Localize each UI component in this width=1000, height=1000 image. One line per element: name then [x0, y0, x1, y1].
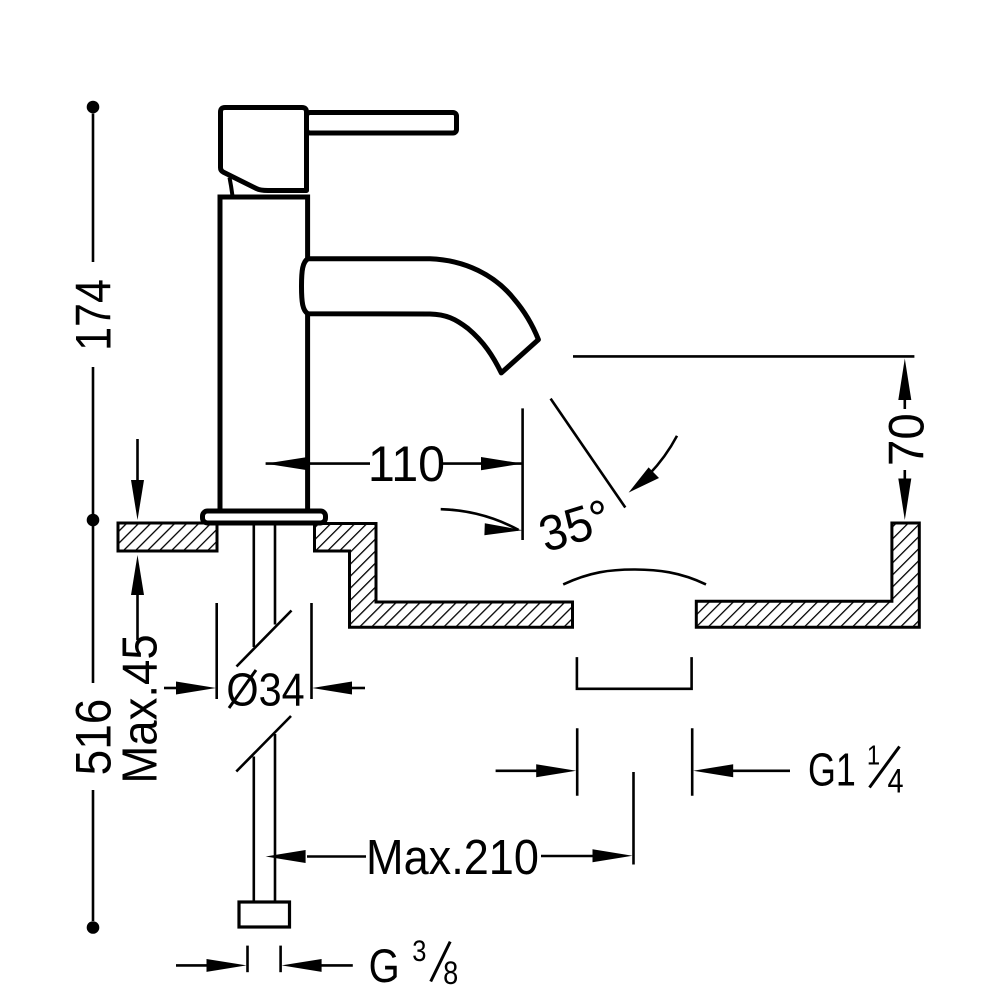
dimension 516 — [67, 526, 122, 934]
pop-up waste dome — [563, 570, 706, 585]
svg-text:G1: G1 — [808, 744, 856, 795]
dimension 35 degrees — [441, 399, 677, 564]
svg-text:110: 110 — [368, 436, 445, 492]
dimension 70 — [573, 356, 935, 520]
base plate (escutcheon) — [203, 511, 326, 523]
svg-text:3: 3 — [412, 934, 426, 967]
break slash lower — [236, 716, 291, 772]
spout — [302, 259, 539, 373]
dimension Max.210 — [266, 772, 634, 884]
svg-text:174: 174 — [65, 279, 121, 351]
svg-text:8: 8 — [443, 956, 458, 992]
drain tailpiece U outline — [577, 657, 692, 689]
svg-text:70: 70 — [879, 413, 934, 466]
faucet head (mixer cartridge housing) — [221, 108, 307, 191]
basin left wall and bottom (hatched L profile) — [315, 524, 573, 628]
countertop left slab (hatched) — [118, 523, 217, 551]
dimension 174 — [65, 101, 121, 527]
supply hose lower segment — [254, 734, 275, 901]
hose end nut — [239, 902, 290, 927]
dimension G 3/8 — [176, 934, 458, 993]
head seam line — [230, 178, 233, 197]
svg-text:1: 1 — [867, 739, 880, 771]
svg-text:Max.210: Max.210 — [366, 829, 539, 884]
lever handle — [307, 113, 457, 134]
svg-text:G: G — [369, 941, 400, 993]
faucet body — [220, 197, 308, 512]
dimension 110 — [266, 408, 523, 540]
dimension G1 1/4 — [496, 728, 904, 800]
svg-text:Max.45: Max.45 — [113, 634, 168, 783]
break slash upper — [237, 611, 292, 667]
basin right wall and bottom (hatched L profile) — [696, 523, 919, 627]
dimension Max.45 — [113, 439, 168, 784]
supply shank upper segment — [254, 526, 275, 648]
svg-text:4: 4 — [887, 761, 903, 800]
dimension diameter 34 — [164, 603, 365, 716]
svg-text:O34: O34 — [226, 665, 304, 717]
